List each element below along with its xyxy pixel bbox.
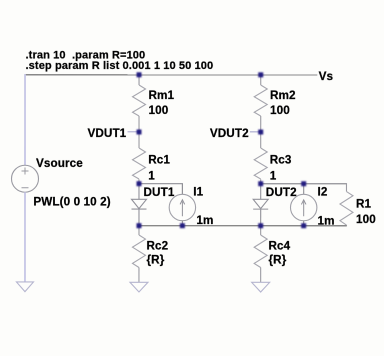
- node bottom rail I1: [180, 223, 185, 228]
- diode DUT2 lead bottom: [260, 209, 262, 226]
- node junction top rail branch1: [137, 72, 142, 77]
- node bottom rail branch1: [136, 223, 141, 228]
- svg-text:I1: I1: [193, 185, 203, 198]
- svg-text:DUT1: DUT1: [143, 186, 174, 199]
- wire top horizontal Vs rail: [25, 74, 317, 76]
- resistor Rm1 lead top: [138, 75, 140, 85]
- svg-text:Rm1: Rm1: [149, 89, 175, 102]
- diode DUT1 lead bottom: [138, 209, 140, 226]
- resistor Rc2 zigzag: [132, 235, 145, 268]
- current source I2 arrow: [301, 200, 306, 216]
- resistor R1 zigzag: [340, 192, 353, 226]
- node mid row branch1: [136, 181, 141, 186]
- resistor Rc1 lead top: [138, 132, 140, 148]
- resistor Rc4 lead top: [260, 226, 262, 235]
- svg-text:PWL(0 0 10 2): PWL(0 0 10 2): [33, 195, 110, 208]
- diode DUT2 triangle: [253, 199, 268, 208]
- wire stub VDUT2 to node: [250, 131, 261, 133]
- diode DUT2 lead top: [260, 184, 262, 200]
- wire mid row branch2 to R1: [261, 183, 347, 185]
- resistor Rm1 zigzag: [133, 85, 146, 116]
- svg-text:.step param R list 0.001 1 10: .step param R list 0.001 1 10 50 100: [26, 60, 214, 72]
- node bottom rail branch2: [258, 223, 263, 228]
- svg-text:VDUT1: VDUT1: [87, 127, 126, 140]
- resistor Rc1 lead bottom: [138, 179, 140, 183]
- node VDUT1: [137, 129, 142, 134]
- Vsource minus sign: [21, 187, 28, 189]
- svg-text:Vs: Vs: [319, 70, 334, 83]
- ground under Rc4: [252, 282, 270, 292]
- node VDUT2: [258, 130, 263, 135]
- svg-text:Rm2: Rm2: [270, 89, 296, 102]
- svg-text:DUT2: DUT2: [266, 186, 297, 199]
- svg-text:100: 100: [149, 104, 169, 117]
- resistor Rc1 zigzag: [132, 148, 145, 179]
- resistor Rc4 zigzag: [254, 235, 267, 268]
- resistor Rm2 lead top: [260, 75, 262, 85]
- diode DUT1 triangle: [131, 199, 146, 208]
- ground under Rc2: [130, 282, 148, 292]
- svg-text:I2: I2: [317, 186, 327, 199]
- svg-text:Rc2: Rc2: [146, 239, 168, 252]
- diode DUT1 cathode bar: [131, 208, 146, 210]
- current source I1 lead bottom: [181, 221, 183, 226]
- diode DUT1 lead top: [138, 184, 140, 200]
- current source I2 circle: [290, 194, 316, 220]
- wire left vertical above Vsource: [24, 74, 26, 165]
- resistor R1 lead top: [345, 183, 347, 191]
- resistor Rc2 lead top: [138, 226, 140, 235]
- svg-text:100: 100: [270, 104, 290, 117]
- svg-text:1: 1: [148, 169, 155, 182]
- svg-text:100: 100: [356, 213, 376, 226]
- node junction top rail branch2: [258, 72, 263, 77]
- wire bottom horizontal rail: [139, 225, 346, 227]
- diode DUT2 cathode bar: [253, 208, 268, 210]
- resistor Rc3 zigzag: [254, 148, 267, 179]
- svg-text:VDUT2: VDUT2: [210, 127, 249, 140]
- svg-text:1: 1: [270, 169, 277, 182]
- wire stub VDUT1 to node: [128, 131, 140, 133]
- Vsource plus sign: [22, 167, 29, 174]
- resistor Rm1 lead bottom: [138, 116, 140, 132]
- svg-text:Vsource: Vsource: [36, 157, 83, 170]
- resistor Rc3 lead top: [260, 132, 262, 148]
- resistor Rc4 lead bottom: [260, 268, 262, 283]
- resistor Rc2 lead bottom: [138, 267, 140, 282]
- current source I2 lead bottom: [303, 221, 305, 226]
- resistor Rm2 zigzag: [254, 85, 267, 116]
- ground under Vsource: [16, 282, 33, 292]
- resistor R1 lead bottom: [345, 225, 347, 226]
- svg-text:R1: R1: [356, 198, 372, 211]
- svg-text:Rc3: Rc3: [270, 154, 292, 167]
- current source I1 arrow: [180, 200, 185, 216]
- svg-text:Rc1: Rc1: [148, 153, 170, 166]
- node mid row branch2: [258, 181, 263, 186]
- resistor Rc3 lead bottom: [260, 179, 262, 183]
- current source I1 circle: [169, 194, 195, 220]
- svg-text:{R}: {R}: [268, 253, 286, 266]
- node bottom rail I2: [301, 223, 306, 228]
- node mid row I2 top: [301, 181, 306, 186]
- wire left vertical below Vsource: [24, 192, 26, 282]
- voltage source V1 Vsource circle: [11, 165, 38, 192]
- svg-text:{R}: {R}: [146, 253, 164, 266]
- resistor Rm2 lead bottom: [260, 116, 262, 132]
- wire stub I2 top: [303, 184, 305, 195]
- svg-text:Rc4: Rc4: [268, 240, 290, 253]
- wire mid row branch1 to I1: [139, 184, 182, 195]
